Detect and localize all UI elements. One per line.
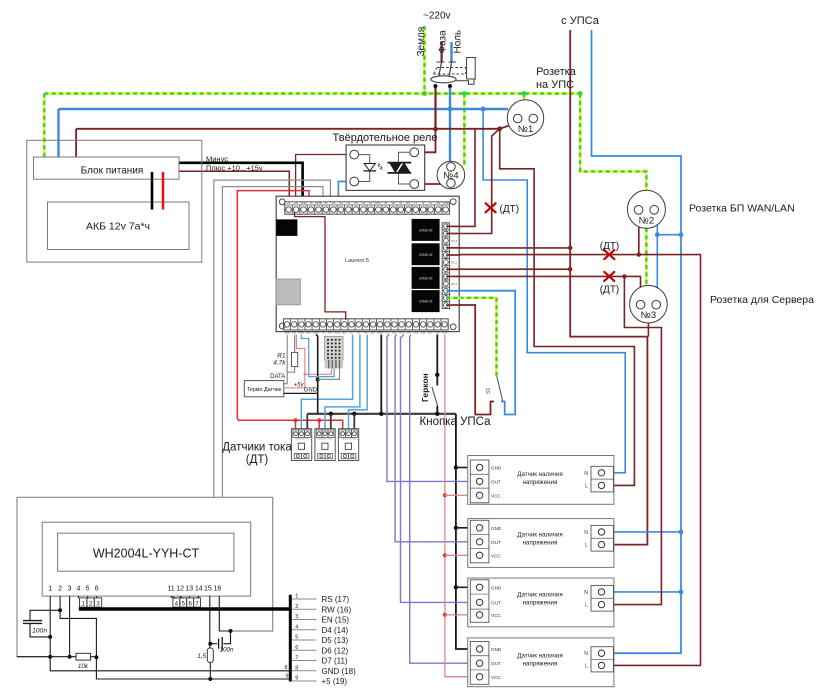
- wire LCD pins 4-6 into header cells: [78, 596, 96, 598]
- svg-text:Земля: Земля: [416, 27, 427, 57]
- node pin1 cap junction: [48, 635, 52, 639]
- svg-text:2: 2: [58, 586, 62, 593]
- node ground junction at №1 stub: [522, 91, 527, 96]
- wire red drop to sensor2: [318, 420, 320, 430]
- LCD pin numbers: [48, 586, 221, 593]
- voltage sensor box 4 (Датчик наличия напряжения): [468, 638, 614, 687]
- wire Кнопка УПСа blue side from R4.1: [460, 291, 516, 415]
- svg-text:C8: C8: [421, 330, 425, 334]
- svg-text:(ДТ): (ДТ): [500, 204, 520, 215]
- svg-text:с УПСа: с УПСа: [561, 15, 600, 27]
- node GND junction from board: [379, 412, 383, 416]
- wire ground stub to socket №1: [523, 94, 525, 100]
- svg-text:14: 14: [195, 586, 203, 593]
- wire ground drop to Laurent board: [463, 94, 465, 167]
- svg-text:C2: C2: [332, 201, 336, 205]
- svg-text:на УПС: на УПС: [536, 79, 574, 91]
- wire phase below plug: [434, 86, 436, 129]
- svg-text:VCC: VCC: [491, 675, 501, 680]
- svg-text:Датчик наличия: Датчик наличия: [517, 591, 562, 598]
- wire LCD pin1: [50, 596, 289, 671]
- svg-text:WH2004L-YYH-CT: WH2004L-YYH-CT: [93, 547, 200, 561]
- Laurent-5 controller board: [276, 196, 459, 331]
- svg-text:1,5: 1,5: [197, 653, 206, 660]
- wire Минус black from power supply to board: [179, 163, 303, 202]
- wire GND stub box2: [456, 527, 471, 529]
- svg-text:напряжения: напряжения: [523, 599, 558, 606]
- wire 10k net horizontal: [17, 656, 76, 658]
- svg-text:Розетка БП WAN/LAN: Розетка БП WAN/LAN: [689, 203, 795, 215]
- svg-text:L: L: [585, 663, 588, 669]
- svg-text:GND: GND: [304, 388, 318, 394]
- svg-text:(ДТ): (ДТ): [246, 454, 269, 466]
- wire socket №4 bottom to relay: [416, 183, 447, 185]
- svg-text:L: L: [585, 603, 588, 609]
- svg-text:D5 (13): D5 (13): [322, 636, 349, 645]
- svg-text:C1: C1: [386, 330, 390, 334]
- node pin2 cap junction: [58, 608, 62, 612]
- wire LCD pins 11-14 into header cells: [171, 596, 199, 598]
- svg-text:G3MB-05: G3MB-05: [419, 300, 433, 304]
- node VCC junction box1: [443, 493, 447, 497]
- wire neutral stub to box3 N: [602, 591, 681, 593]
- wire red VCC feed line from board: [445, 335, 471, 677]
- svg-text:(ДТ): (ДТ): [600, 241, 620, 252]
- socket №3 (Розетка для Сервера): [630, 285, 668, 323]
- wire blue staircase to sensor2 middle: [325, 335, 360, 430]
- wire с УПСа phase vertical: [570, 30, 647, 545]
- wire violet OUT line to box4: [410, 335, 471, 664]
- board relay block K2: [412, 243, 440, 265]
- svg-text:GND: GND: [491, 526, 502, 531]
- svg-text:N: N: [584, 590, 588, 596]
- wire Ноль vertical from top: [450, 42, 452, 62]
- node phase junction below plug: [433, 127, 438, 132]
- svg-text:Ноль: Ноль: [452, 30, 463, 54]
- svg-text:4.7k: 4.7k: [273, 360, 286, 367]
- wire GND feed to voltage sensor boxes: [456, 414, 471, 649]
- svg-text:C4: C4: [407, 330, 411, 334]
- svg-text:SD: SD: [391, 201, 395, 205]
- svg-text:напряжения: напряжения: [523, 661, 558, 668]
- svg-text:№1: №1: [518, 124, 533, 135]
- socket №4: [437, 161, 465, 189]
- svg-text:ОБЩ ВЫХ ПИТ: ОБЩ ВЫХ ПИТ: [318, 439, 333, 441]
- wire violet OUT line to box1: [387, 335, 471, 482]
- switch Геркон lever: [432, 387, 438, 406]
- resistor 1,5: [197, 648, 213, 681]
- wire gray LCD top edge join: [214, 496, 223, 498]
- node GND junction under Геркон: [435, 412, 439, 416]
- resistor 10k: [76, 653, 96, 670]
- svg-text:напряжения: напряжения: [523, 539, 558, 546]
- board usb connector: [276, 279, 300, 305]
- svg-text:L: L: [585, 483, 588, 489]
- wire №3 line to box3 L: [602, 276, 661, 604]
- wire GND bus drop to sensor2: [330, 414, 332, 430]
- node GND junction box3: [454, 585, 458, 589]
- wire phase drop into power supply: [75, 129, 77, 163]
- svg-text:D4 (14): D4 (14): [322, 626, 349, 635]
- svg-text:Розетка: Розетка: [536, 66, 577, 78]
- wire VCC stub box2: [445, 554, 471, 556]
- svg-text:RST: RST: [376, 201, 382, 205]
- current transformer mark X3 (ДТ): [604, 272, 614, 281]
- svg-text:100n: 100n: [32, 628, 47, 635]
- wire black GND vertical from board pin5: [316, 335, 318, 414]
- svg-text:4: 4: [76, 586, 80, 593]
- node red junction current sensor 2: [317, 418, 321, 422]
- svg-text:Датчик наличия: Датчик наличия: [517, 471, 562, 478]
- svg-text:4: 4: [295, 624, 298, 630]
- svg-text:№3: №3: [641, 310, 656, 321]
- svg-text:C6: C6: [414, 330, 418, 334]
- svg-text:Плюс +10...+15v: Плюс +10...+15v: [206, 163, 263, 172]
- node №2 tap on R2.2 line: [637, 252, 641, 256]
- power supply outer enclosure: [27, 140, 202, 262]
- wire DATA gray from board pin1 to thermo sensor: [284, 335, 287, 384]
- svg-text:C4: C4: [347, 201, 351, 205]
- voltage sensor box 3 (Датчик наличия напряжения): [468, 578, 614, 627]
- svg-text:OUT: OUT: [491, 479, 501, 484]
- node bridge corner dot: [655, 232, 660, 237]
- wire Кнопка УПСа maroon side from R4.3: [460, 305, 495, 415]
- svg-text:Минус: Минус: [206, 155, 228, 164]
- node red junction current sensor 1: [294, 418, 298, 422]
- wire gray LCD loop B from board pin5: [222, 187, 323, 631]
- current sensor module ДТ2: [315, 429, 335, 461]
- svg-text:Геркон: Геркон: [420, 373, 430, 402]
- svg-text:~220v: ~220v: [423, 11, 451, 22]
- svg-text:G3MB-05: G3MB-05: [419, 253, 433, 257]
- switch Кнопка УПСа lever: [497, 376, 503, 401]
- wire +5v red from board to thermo and DHT: [284, 335, 305, 388]
- svg-text:Rx: Rx: [328, 330, 332, 334]
- svg-text:N: N: [584, 530, 588, 536]
- svg-text:GND: GND: [491, 585, 502, 590]
- wire №1 phase to voltage sensor box1 L: [500, 129, 635, 486]
- svg-text:15: 15: [204, 586, 212, 593]
- svg-text:Датчики тока: Датчики тока: [222, 442, 292, 454]
- wire battery minus link: [151, 172, 154, 210]
- wire с УПСа neutral vertical: [592, 30, 682, 653]
- svg-text:(ДТ): (ДТ): [600, 285, 620, 296]
- wire VCC stub box3: [445, 614, 471, 616]
- svg-text:5KA: 5KA: [284, 330, 289, 334]
- current sensor module ДТ1: [291, 429, 311, 461]
- wire stub into socket №1: [500, 126, 509, 129]
- svg-text:IO3: IO3: [399, 330, 404, 334]
- current transformer mark X2 (ДТ): [604, 250, 614, 259]
- svg-text:C6: C6: [362, 201, 366, 205]
- DHT22 humidity sensor: [325, 336, 343, 368]
- plug ~220v: [431, 58, 475, 89]
- node pin2 10k junction: [94, 655, 98, 659]
- svg-text:GND: GND: [377, 330, 383, 334]
- wire black GND bus horizontal (dark): [307, 413, 456, 415]
- svg-text:D6 (12): D6 (12): [322, 646, 349, 655]
- wire ground bus (Земля, yellow-green dashed horizontal): [44, 92, 580, 94]
- connector pin ladder: [292, 594, 356, 687]
- svg-text:+5: +5: [309, 201, 313, 205]
- wire neutral drop to socket №4: [449, 109, 451, 163]
- svg-text:GN: GN: [436, 201, 440, 205]
- wire Кнопка УПСа green from R4.2: [460, 298, 497, 376]
- wire GND stub box1: [456, 467, 471, 469]
- wire LCD pin3: [69, 596, 71, 657]
- node pin15 cap2 junction: [208, 642, 212, 646]
- wire Земля vertical from top: [423, 26, 425, 94]
- svg-text:8: 8: [284, 665, 287, 671]
- svg-text:N: N: [584, 651, 588, 657]
- svg-text:C3: C3: [339, 201, 343, 205]
- node №3 L-feed tap on R3.2 line: [622, 274, 626, 278]
- current transformer mark X1 (ДТ): [486, 203, 496, 212]
- node с УПСа junction R3.1: [568, 267, 572, 271]
- svg-text:Датчик наличия: Датчик наличия: [517, 653, 562, 660]
- wire Ноль below plug to bus: [449, 86, 451, 109]
- svg-text:SC: SC: [406, 201, 410, 205]
- svg-text:1: 1: [48, 586, 52, 593]
- svg-text:11: 11: [167, 586, 174, 593]
- wire №1 to board via current-sensor mark: [460, 129, 500, 234]
- wire relay input top to board pin2: [296, 155, 352, 203]
- svg-text:RW (16): RW (16): [322, 605, 352, 614]
- voltage sensor box 1 (Датчик наличия напряжения): [468, 456, 614, 505]
- svg-text:VCC: VCC: [491, 493, 501, 498]
- svg-text:12: 12: [176, 586, 184, 593]
- board right terminal strip: [442, 223, 460, 309]
- wire phase Фаза vertical from top: [441, 42, 443, 62]
- svg-text:OUT: OUT: [491, 600, 501, 605]
- node cap2 top junction: [229, 629, 233, 633]
- solid state relay U1 (Твёрдотельное реле): [346, 145, 425, 190]
- svg-text:IN: IN: [384, 201, 387, 205]
- svg-text:IO2: IO2: [392, 330, 397, 334]
- wire battery plus link: [162, 172, 165, 210]
- wire Плюс from power supply to board: [179, 171, 289, 202]
- svg-text:C1: C1: [324, 201, 328, 205]
- wire LCD pin2: [60, 596, 289, 679]
- wire phase feed to relay row R1.1: [460, 129, 476, 227]
- svg-text:S1: S1: [486, 388, 492, 394]
- node GND junction sensor3: [352, 412, 356, 416]
- svg-text:VCC: VCC: [491, 613, 501, 618]
- header cells 1-3: [80, 598, 102, 607]
- svg-text:EN (15): EN (15): [322, 616, 350, 625]
- svg-text:FRD: FRD: [299, 330, 305, 334]
- svg-text:IO7: IO7: [428, 330, 433, 334]
- wire gray DHT leg4 to GND: [318, 368, 340, 379]
- svg-text:1: 1: [295, 594, 298, 600]
- wire thick data bus horizontal: [79, 607, 290, 610]
- board top terminal strip: [285, 201, 450, 214]
- resistor R1 4.7k: [273, 335, 297, 373]
- board internal wire from pin2 to bottom: [295, 212, 346, 320]
- svg-text:6: 6: [95, 586, 99, 593]
- node ground junction at Земля: [422, 91, 427, 96]
- svg-text:Кнопка УПСа: Кнопка УПСа: [420, 416, 492, 428]
- wire relay row R3.2 switched output into №3: [460, 276, 641, 297]
- wire blue staircase to sensor3 middle: [349, 335, 368, 430]
- node GND junction box2: [454, 526, 458, 530]
- svg-text:Фаза: Фаза: [437, 30, 448, 54]
- wire ground to socket №2: [580, 94, 646, 192]
- wire Геркон bottom stub: [436, 406, 438, 414]
- wire board GND down to bus: [380, 335, 382, 414]
- svg-text:5: 5: [295, 635, 298, 641]
- node neutral junction at x483: [481, 107, 486, 112]
- svg-text:Блок питания: Блок питания: [81, 166, 144, 177]
- svg-text:N: N: [584, 471, 588, 477]
- svg-text:ОБЩ ВЫХ ПИТ: ОБЩ ВЫХ ПИТ: [294, 439, 309, 441]
- node neutral junction box2 N: [679, 530, 684, 535]
- node VCC junction box2: [443, 553, 447, 557]
- svg-text:3: 3: [68, 586, 72, 593]
- svg-text:Термо Датчик: Термо Датчик: [247, 387, 282, 393]
- wire №3 bottom drop: [647, 322, 649, 337]
- svg-text:3: 3: [295, 614, 298, 620]
- svg-text:+V: +V: [287, 201, 291, 205]
- svg-text:A2: A2: [371, 330, 375, 334]
- wire phase down to relay output top terminal: [416, 129, 436, 152]
- wire neutral stub to box2 N: [602, 531, 681, 533]
- wire Земля drop to power supply: [43, 94, 45, 163]
- svg-text:Laurent-5: Laurent-5: [345, 258, 369, 264]
- node GND junction sensor2: [329, 412, 333, 416]
- svg-text:8: 8: [295, 665, 298, 671]
- svg-text:7: 7: [295, 655, 298, 661]
- wire neutral branch to voltage sensor box 1 N: [483, 109, 625, 473]
- svg-text:PA: PA: [292, 330, 296, 334]
- socket №1 (Розетка на УПС): [507, 100, 543, 136]
- wire gray LCD loop A from board pin6: [17, 180, 330, 657]
- svg-text:OUT: OUT: [491, 661, 501, 666]
- wire blue DATA from board pin3 to DHT leg3: [301, 335, 334, 377]
- svg-text:D7 (11): D7 (11): [322, 657, 348, 666]
- board relay block K1: [412, 219, 440, 241]
- svg-text:R3.3: R3.3: [451, 282, 457, 286]
- svg-text:PD: PD: [307, 330, 311, 334]
- wire phase distribution horizontal: [76, 128, 500, 130]
- socket №2 (Розетка БП WAN/LAN): [627, 190, 665, 228]
- svg-text:C5: C5: [354, 201, 358, 205]
- svg-text:DATA: DATA: [270, 374, 285, 380]
- node с УПСа junction R2.1: [568, 246, 572, 250]
- battery АКБ 12v: [48, 202, 190, 250]
- svg-text:+U3: +U3: [442, 330, 448, 334]
- svg-text:10k: 10k: [78, 663, 89, 670]
- power supply unit (Блок питания): [34, 157, 180, 179]
- svg-text:GND: GND: [443, 201, 449, 205]
- svg-text:9: 9: [285, 674, 288, 680]
- current sensor module ДТ3: [338, 429, 358, 461]
- wire violet OUT line to box3: [401, 335, 471, 603]
- wire neutral drop to power supply: [57, 109, 59, 163]
- svg-text:GND: GND: [491, 466, 502, 471]
- wire GND bus drop to sensor3: [353, 414, 355, 430]
- wire relay row R2.1 to УПС feed: [460, 247, 571, 249]
- wire relay row R2.2 switched output: [460, 255, 701, 666]
- svg-text:RS (17): RS (17): [322, 595, 350, 604]
- svg-text:G3MB-05: G3MB-05: [419, 276, 433, 280]
- LCD module WH2004L: [42, 522, 251, 596]
- node neutral junction above №4: [448, 107, 453, 112]
- svg-text:L: L: [585, 543, 588, 549]
- svg-text:100n: 100n: [219, 647, 234, 654]
- svg-text:C7: C7: [369, 201, 373, 205]
- svg-text:Твёрдотельное реле: Твёрдотельное реле: [333, 132, 438, 144]
- svg-text:GND: GND: [313, 330, 319, 334]
- node GND junction DHT leg4: [316, 377, 320, 381]
- wire relay input bottom to board pin7 (blue): [338, 181, 352, 202]
- svg-text:ОБЩ ВЫХ ПИТ: ОБЩ ВЫХ ПИТ: [341, 439, 356, 441]
- wire GND black from thermo bottom: [284, 392, 318, 394]
- svg-text:C9: C9: [436, 330, 440, 334]
- board relay block K4: [412, 290, 440, 312]
- node VCC junction box3: [443, 613, 447, 617]
- header cells 4-7: [173, 598, 201, 607]
- svg-text:PWR: PWR: [315, 201, 322, 205]
- node ground junction at board drop: [462, 91, 467, 96]
- board mounting holes: [279, 199, 456, 330]
- node Геркон contact dot: [435, 373, 439, 377]
- wire LCD pin15 to resistor 1,5: [209, 596, 211, 648]
- node neutral junction box3 N: [679, 590, 684, 595]
- svg-text:16: 16: [214, 586, 222, 593]
- svg-text:+5 (19): +5 (19): [322, 677, 348, 686]
- svg-text:АКБ 12v 7а*ч: АКБ 12v 7а*ч: [86, 221, 150, 233]
- wire VCC stub box1: [445, 494, 471, 496]
- wire red VCC from board to LCD area and current sensors: [237, 191, 342, 430]
- svg-text:GND: GND: [491, 647, 502, 652]
- svg-text:VCC: VCC: [491, 553, 501, 558]
- wire Геркон top from board: [436, 335, 438, 386]
- svg-text:№4: №4: [443, 171, 458, 182]
- node phase junction at №1 tap: [497, 126, 502, 131]
- svg-text:GND (18): GND (18): [322, 667, 357, 676]
- wire LCD pin16 to cap2 node: [219, 596, 230, 631]
- svg-text:6: 6: [295, 645, 298, 651]
- svg-text:9: 9: [295, 676, 298, 682]
- wire №2 phase drop: [638, 227, 640, 255]
- svg-text:R1: R1: [277, 353, 286, 360]
- svg-text:G3MB-05: G3MB-05: [419, 228, 433, 232]
- wire blue bridge №2 to УПС neutral: [657, 225, 681, 235]
- wire ground from №2 to №3: [645, 228, 647, 287]
- svg-text:R2.3: R2.3: [451, 260, 457, 264]
- svg-text:OUT: OUT: [491, 540, 501, 545]
- svg-text:Датчик наличия: Датчик наличия: [517, 531, 562, 538]
- svg-text:№2: №2: [639, 215, 654, 226]
- node GND junction box1: [454, 465, 458, 469]
- svg-text:p1: p1: [343, 330, 347, 334]
- thermo sensor box (Термо Датчик): [244, 381, 283, 397]
- wire red drop to sensor1: [295, 420, 297, 430]
- node neutral junction at №2 bridge: [679, 232, 684, 237]
- board bottom terminal strip: [284, 319, 449, 335]
- svg-text:R1.3: R1.3: [451, 239, 457, 243]
- voltage sensor box 2 (Датчик наличия напряжения): [468, 519, 614, 568]
- wire violet OUT line to box2: [395, 335, 470, 542]
- node pin1 resistor junction: [48, 655, 52, 659]
- svg-text:+C3: +C3: [335, 330, 341, 334]
- wire neutral bus (blue horizontal): [59, 108, 509, 110]
- wire thick bus vertical bar: [289, 595, 292, 682]
- svg-text:GND: GND: [300, 201, 306, 205]
- board ethernet jack: [276, 219, 297, 236]
- board relay block K3: [412, 267, 440, 289]
